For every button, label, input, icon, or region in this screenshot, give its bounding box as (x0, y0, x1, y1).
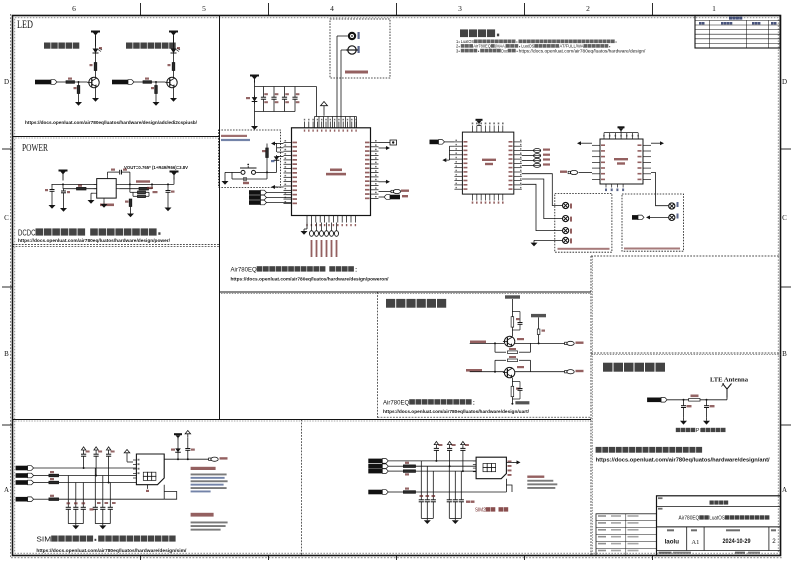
sim1 connector grid (143, 472, 156, 480)
svg-text:PI: PI (696, 428, 701, 434)
regulator label (100, 204, 114, 207)
resistor base series NETLED (66, 81, 75, 84)
wire tp2 route (522, 179, 563, 219)
svg-text::: : (472, 400, 476, 407)
approval table entries (598, 515, 639, 551)
svg-text:C: C (4, 214, 9, 222)
TVS diode vbat (252, 96, 258, 104)
transistor Q4 (503, 367, 515, 377)
wire base (134, 81, 143, 83)
wire tp4 ground (534, 239, 562, 241)
divider LED/POWER (13, 136, 220, 138)
net flag usim vdd (430, 140, 445, 145)
U4 top pins (603, 133, 639, 139)
bottom net labels vertical (311, 240, 338, 257)
decoupling caps bank (261, 87, 300, 112)
zone numbers top (72, 4, 716, 13)
wire to transistor (152, 81, 166, 83)
svg-text:LED: LED (17, 19, 33, 31)
power VBAT main (250, 75, 259, 83)
TVS pwrkey (276, 144, 278, 153)
note line 2 (456, 44, 610, 49)
svg-text:DCDC: DCDC (18, 228, 36, 238)
wire pushbutton right (256, 171, 267, 173)
U4 left pins (592, 144, 605, 180)
svg-text:Air780EQ: Air780EQ (383, 400, 409, 407)
pwrkey note line1 (221, 135, 250, 141)
note line 1 (456, 39, 617, 44)
oval flag txd out (565, 370, 575, 374)
wire pwrkey arrow (271, 142, 277, 146)
wire U4 to tp box (651, 173, 668, 206)
svg-text:https://docs.openluat.com/air7: https://docs.openluat.com/air780eq/luato… (596, 458, 770, 464)
wire Q3 out (515, 342, 565, 344)
revision history table (695, 16, 780, 49)
sim2 connector grid (483, 464, 496, 472)
ferrite bead 4 (522, 164, 534, 166)
heading poweron guide (231, 266, 359, 273)
svg-text:https://docs.openluat.com/air7: https://docs.openluat.com/air780eq/luato… (519, 48, 647, 53)
svg-text:D: D (4, 78, 9, 86)
svg-text:https://docs.openluat.com/air7: https://docs.openluat.com/air780eq/luato… (231, 277, 390, 283)
capacitor feedback (138, 195, 146, 198)
zone letters left (4, 78, 9, 494)
zone letters right (782, 78, 787, 494)
oval flag vdd U4 (568, 170, 578, 174)
svg-text:Air780EQ: Air780EQ (231, 267, 257, 274)
U3 left pins (454, 140, 467, 190)
title block drawn by (665, 529, 680, 545)
zone ticks bottom (141, 556, 653, 561)
svg-text:3: 3 (456, 48, 459, 53)
sim1 caps group1 ground (68, 524, 83, 530)
resistor sim data (49, 481, 59, 484)
wire to transistor (75, 81, 88, 83)
ground pushbutton (225, 171, 240, 173)
label sim2 channel (475, 507, 508, 513)
sim det note lines (191, 474, 228, 493)
divider antenna box top (591, 352, 781, 354)
wire vbat to chip (316, 87, 318, 117)
sim det note title (191, 467, 216, 470)
resistor pwrkey pullup (266, 144, 268, 149)
svg-text:2024-10-29: 2024-10-29 (723, 539, 752, 545)
ground feedback (130, 207, 132, 211)
esd diode usim (175, 447, 181, 454)
wire tp3 route (522, 184, 563, 230)
U4 power top (620, 129, 622, 133)
sim2 caps group2 (447, 466, 464, 518)
divider left column vertical (219, 16, 221, 420)
ground bottom pin (306, 223, 308, 230)
net flag uart rx (249, 195, 267, 200)
U3 right pins (509, 140, 522, 190)
sim1 caps group1 (66, 476, 86, 524)
wire en rail (62, 184, 64, 188)
heading uart guide (383, 399, 476, 406)
net label mcu vcc bottom (511, 397, 513, 404)
capacitor bootstrap (108, 170, 130, 185)
RF box label (345, 71, 368, 74)
resistor sim2 rst (403, 465, 415, 468)
oval flag usim vdd out (209, 457, 219, 461)
test point TP5 (669, 203, 675, 209)
resistor pulldown (78, 82, 80, 86)
net flag gnd tp (632, 215, 644, 220)
note line 3 (456, 48, 646, 53)
U3 power top (478, 121, 480, 126)
U3 top pins (472, 123, 504, 133)
net flag wakeup (249, 190, 267, 195)
svg-text:Air780EQ: Air780EQ (679, 516, 700, 522)
sim1 channel title (191, 513, 214, 517)
ferrite bead 2 (522, 155, 534, 157)
capacitor debounce label (243, 182, 249, 184)
svg-text:D: D (782, 78, 787, 86)
ground regulator pad (101, 201, 108, 208)
regulator U5 DCDC (97, 179, 117, 199)
test box label (558, 248, 610, 250)
resistor ant series (689, 399, 700, 402)
wire left stubs chip (277, 148, 284, 157)
svg-text:2: 2 (586, 4, 590, 13)
resistor pullup 2 (537, 329, 540, 335)
sim1 esd caps top (81, 447, 115, 483)
title block size (691, 529, 699, 546)
sim1 channel note lines (191, 522, 228, 531)
sim1 caps group2 (93, 468, 113, 524)
transistor Q3 (503, 336, 515, 346)
svg-text:B: B (782, 350, 787, 358)
top pins bus (315, 117, 357, 128)
wire det loop (164, 485, 177, 500)
section title antenna match (603, 363, 665, 372)
label pi match (676, 428, 726, 434)
divider uart box bottom edge (378, 416, 592, 418)
left pin stubs (284, 140, 298, 204)
net flag usim2 det (368, 490, 388, 495)
power sim vcc tick (124, 450, 130, 462)
wire ant rail 2 (700, 399, 727, 401)
svg-text:2: 2 (772, 538, 776, 545)
arrow U4 left (577, 141, 582, 145)
capacitor input 2 (61, 189, 66, 195)
test box 2 label (624, 248, 680, 250)
power VBAT input (59, 170, 68, 181)
svg-text:https://docs.openluat.com/air7: https://docs.openluat.com/air780eq/luato… (18, 238, 171, 244)
divider POWER bottom (13, 244, 220, 246)
svg-text:B: B (4, 350, 9, 358)
arrow usim bus (449, 146, 454, 160)
LED diode (171, 47, 181, 56)
resistor collector (94, 63, 97, 71)
resistor pullup 1 (511, 317, 514, 327)
svg-text:4: 4 (330, 4, 334, 13)
pwrkey dashed box (219, 130, 281, 187)
capacitor debounce (232, 172, 267, 181)
oval flag rxd out (565, 341, 575, 345)
approval table (596, 514, 657, 556)
power VDD_EXT (91, 31, 100, 47)
junction dots sim bus (83, 467, 110, 484)
resistor pulldown (155, 82, 157, 86)
RF connector dashed box (330, 19, 390, 78)
svg-text:LTE Antenna: LTE Antenna (710, 377, 749, 384)
svg-text:laolu: laolu (665, 539, 680, 546)
inductor label (136, 180, 150, 182)
pushbutton S1 (240, 164, 257, 175)
svg-text:Doc: Doc (501, 48, 508, 53)
test point dashed box gnd (622, 194, 684, 251)
wire vbat rail (254, 81, 256, 112)
zone ticks top (141, 3, 653, 16)
svg-text:A: A (782, 486, 787, 494)
ground regulator (91, 192, 94, 194)
title block title (658, 508, 769, 522)
ferrite bead 3 (522, 159, 534, 161)
feedback labels (147, 187, 153, 189)
wire collector (95, 71, 97, 79)
net flag STATUS (112, 80, 134, 85)
capacitor parallel 1 (512, 312, 522, 331)
antenna symbol (723, 384, 732, 398)
transistor NETLED (87, 77, 99, 87)
net flag uart tx (249, 200, 267, 205)
resistor sim det (49, 498, 59, 501)
wire to Q3 (511, 327, 513, 336)
bootstrap labels (111, 169, 115, 171)
net flag NETLED (35, 80, 57, 85)
svg-text:https://docs.openluat.com/air7: https://docs.openluat.com/air780eq/luato… (25, 120, 198, 125)
wire tp1 route (522, 174, 563, 206)
bottom test pads (310, 223, 339, 237)
wire usb connector (379, 142, 391, 144)
power VDD_EXT (169, 31, 178, 47)
sim1 caps group2 labels (90, 502, 116, 511)
resistor sim2 data (403, 470, 415, 473)
svg-text:A: A (4, 486, 9, 494)
divider right column top (591, 255, 781, 257)
ground input 2 (63, 195, 65, 205)
LED diode (93, 47, 103, 56)
wire base (57, 81, 66, 83)
wire pullup2 down (538, 335, 540, 344)
resistor pulldown q4 (511, 378, 513, 386)
U4 bottom pins (605, 184, 624, 191)
capacitor ant 2 (706, 400, 708, 406)
divider bottom row top (13, 419, 592, 421)
sim2 note lines (527, 476, 557, 489)
svg-text::: : (355, 267, 359, 274)
ground ant 1 (683, 408, 685, 418)
ground output cap (167, 195, 169, 205)
net flag usim2 data (368, 469, 388, 474)
svg-text:A1: A1 (691, 539, 699, 546)
heading sim note (36, 536, 175, 544)
wire reset arrow (271, 185, 277, 189)
input label txd (466, 369, 482, 372)
RF connector J2 (346, 46, 358, 54)
sim1 connector J3 (136, 454, 164, 485)
top pin stubs (304, 119, 357, 132)
net flag usim2 clk (368, 459, 388, 464)
U4 right pins (638, 144, 652, 180)
ground emitter (95, 87, 97, 95)
ground cap bank (254, 112, 256, 124)
zone ticks left (2, 149, 13, 425)
svg-text:3: 3 (458, 4, 462, 13)
capacitor input bulk (50, 187, 55, 193)
label network indicator (44, 43, 79, 49)
net flag usim rst (16, 473, 34, 478)
ground ant 2 (706, 408, 708, 418)
divider sim1/sim2 (301, 420, 303, 556)
wire Q4 out (515, 371, 565, 373)
oval flag vdd ext (379, 191, 392, 193)
heading dcdc guide (18, 228, 161, 238)
sim2 caps group1 (419, 461, 436, 519)
test point TP4 (563, 237, 569, 243)
arrow gpio (379, 181, 387, 183)
net flag usim data (16, 480, 34, 485)
test point TP6 (669, 214, 675, 220)
ferrite bead 1 (522, 150, 534, 152)
title block company (658, 497, 728, 504)
label status indicator (126, 43, 176, 49)
arrow U4 right (651, 142, 659, 144)
wire sim out (164, 458, 208, 460)
ground pulldown (78, 94, 80, 100)
main IC U2 Air780EQ body (292, 128, 371, 216)
divider right column vertical (590, 256, 592, 556)
sim1 connector pins (133, 459, 149, 492)
test point TP2 (563, 216, 569, 222)
right pin stubs (365, 140, 379, 199)
net flag ant (647, 398, 667, 403)
svg-text:6: 6 (72, 4, 76, 13)
wire input rail (52, 183, 97, 185)
sim2 caps group2 ground (449, 518, 461, 524)
ground emitter (173, 87, 175, 95)
title block sheet (771, 529, 776, 545)
resistor sim rst (49, 474, 59, 477)
title block frame (657, 496, 781, 556)
wire collector (173, 71, 175, 79)
resistor feedback bottom (129, 199, 132, 207)
arrow sim2 out (506, 461, 514, 463)
U4 label (614, 158, 628, 165)
test point TP1 (563, 202, 569, 208)
power pin triangle (321, 102, 328, 116)
heading antenna note (596, 447, 703, 453)
section title special notes (460, 29, 499, 37)
capacitor output (166, 188, 171, 194)
resistor collector (172, 63, 175, 71)
U3 label (482, 159, 496, 166)
svg-text:POWER: POWER (22, 143, 48, 154)
test point TP3 (563, 228, 569, 234)
test point dashed box sim (555, 193, 612, 252)
zone ticks right (781, 149, 792, 425)
usb connector symbol (390, 140, 397, 145)
capacitor parallel q4 (512, 382, 522, 400)
main IC U2 label (326, 169, 346, 176)
sim2 caps group2 labels (466, 501, 475, 503)
svg-text:LuatOS: LuatOS (461, 39, 474, 44)
wire output rail (119, 183, 174, 185)
ground pulldown (155, 94, 157, 100)
section title uart level shift (386, 299, 446, 308)
divider center bottom (220, 291, 592, 293)
resistor feedback top (138, 191, 146, 194)
power VDD33 output (170, 171, 179, 180)
divider uart box left (377, 292, 379, 419)
sim2 connector J4 (476, 457, 506, 479)
power usim vdd (174, 433, 182, 439)
resistor sim2 det (403, 491, 415, 494)
arrow adc (379, 147, 387, 149)
ESD IC U4 body (600, 139, 643, 184)
wire cap bank bottom rail (255, 111, 296, 113)
ground input bulk (51, 194, 53, 203)
bypass resistor 1 (495, 343, 506, 352)
capacitor usim vdd (185, 446, 190, 452)
svg-text:Air780EQ: Air780EQ (473, 44, 491, 49)
svg-text:https://docs.openluat.com/air7: https://docs.openluat.com/air780eq/luato… (36, 548, 187, 554)
svg-text:SIM2: SIM2 (475, 508, 486, 514)
net label vdd mcu (531, 314, 546, 329)
wire ant rail (667, 399, 689, 401)
wire RF path 2 (341, 49, 348, 51)
junction dots sim2 (435, 460, 464, 472)
RF connector J1 (348, 32, 356, 40)
junction (155, 81, 157, 83)
resistor base series STATUS (143, 81, 152, 84)
bottom pin stubs (306, 216, 356, 227)
title block bottom strip (659, 552, 761, 554)
resistor enable (77, 187, 87, 190)
U3 bottom pins (472, 194, 504, 204)
sim1 caps group2 ground (95, 524, 110, 530)
sim2 esd caps top (434, 441, 469, 471)
svg-text:1: 1 (712, 4, 716, 13)
net flag usim2 rst (368, 464, 388, 469)
input label rxd (470, 341, 486, 344)
wire RF path 1 (337, 35, 348, 37)
svg-text:https://docs.openluat.com/air7: https://docs.openluat.com/air780eq/luato… (383, 409, 530, 415)
ESD IC U3 body (462, 132, 513, 194)
svg-text:VOUT=0.765* (1+R49/R66)=3.8V: VOUT=0.765* (1+R49/R66)=3.8V (124, 165, 188, 170)
sim2 caps group1 ground (421, 518, 433, 524)
power tick 2 (185, 431, 191, 438)
net label vdd ext top (505, 295, 520, 316)
net flag usim clk (16, 466, 34, 471)
capacitor ant 1 (683, 400, 685, 406)
svg-text:5: 5 (202, 4, 206, 13)
bypass resistor 2 (495, 360, 506, 371)
wire sim2 det loop (506, 479, 512, 492)
transistor STATUS (165, 77, 177, 87)
sim2 connector pins (473, 461, 512, 476)
inductor output (139, 187, 149, 190)
net flag usim det (16, 497, 34, 502)
svg-text:C: C (782, 214, 787, 222)
net flag right (379, 196, 385, 198)
svg-text:SIM: SIM (36, 536, 51, 544)
svg-text:LuatOS: LuatOS (709, 516, 725, 522)
revision table headers (699, 17, 777, 25)
title block date (723, 529, 752, 545)
